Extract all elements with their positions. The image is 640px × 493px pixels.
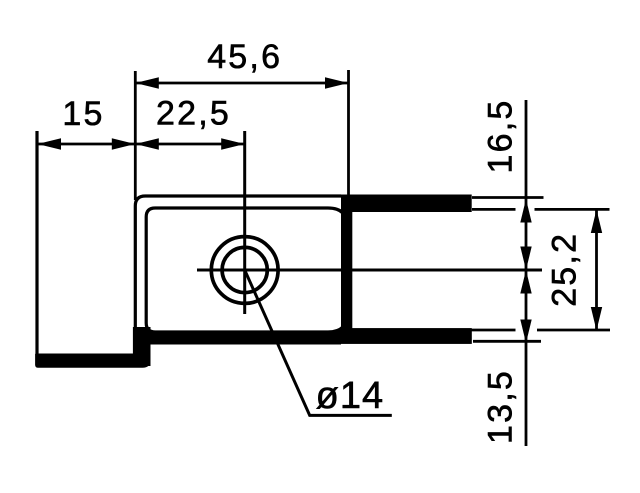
- svg-text:45,6: 45,6: [207, 38, 282, 76]
- horizontal centerline through hole: [197, 269, 542, 272]
- svg-text:16,5: 16,5: [482, 99, 520, 174]
- body inner cavity contour (rounded): [146, 208, 348, 332]
- svg-text:ø14: ø14: [316, 375, 384, 417]
- svg-text:15: 15: [62, 95, 104, 133]
- profile left column (thick fill joining band to bottom bar): [133, 327, 151, 366]
- vertical centerline through hole: [243, 131, 246, 314]
- svg-text:25,2: 25,2: [546, 232, 584, 307]
- arrow right of 22,5: [221, 138, 245, 149]
- arrow left of 22,5: [135, 138, 159, 149]
- arrow left of 15: [38, 138, 62, 149]
- svg-text:13,5: 13,5: [482, 369, 520, 444]
- profile bottom band left segment (thick section fill): [147, 331, 341, 345]
- profile top bar (thick section fill, right of wall): [341, 195, 472, 213]
- hole outer circle (ø14): [211, 237, 278, 304]
- arrow left of 45,6: [135, 77, 159, 88]
- arrow up of 16,5: [520, 199, 531, 223]
- profile right wall (thick vertical section fill): [341, 195, 352, 344]
- dimension line 13,5 (vertical): [525, 270, 528, 446]
- dimension line 15: [38, 143, 136, 146]
- leader line to ø14 label: [245, 270, 392, 415]
- glass bottom thick bar: [35, 354, 150, 368]
- profile bottom band right segment (thick section fill): [341, 328, 472, 344]
- extension line bottom inner surface (right): [472, 329, 516, 332]
- glass panel left edge (thin line): [35, 131, 38, 355]
- extension line top outer surface (right): [472, 196, 544, 199]
- dimension line 16,5 (vertical): [525, 100, 528, 270]
- hole inner circle: [222, 247, 267, 292]
- svg-text:22,5: 22,5: [156, 95, 231, 133]
- arrow right of 15: [112, 138, 136, 149]
- arrow right of 45,6: [325, 77, 349, 88]
- extension line top inner surface (right): [472, 208, 516, 211]
- extension line x=348.5 (right end of 45,6): [347, 70, 350, 196]
- arrow down of 13,5: [520, 320, 531, 344]
- dimension line 22,5: [135, 143, 244, 146]
- arrow down of 25,2: [591, 307, 602, 331]
- dimension line 45,6: [135, 82, 348, 85]
- extension line bottom outer surface (right): [473, 340, 541, 343]
- body outer contour (left edge + rounded top-left corner + top edge): [135, 196, 341, 354]
- re-fill wall over cavity stroke: [341, 208, 352, 333]
- arrow up of 13,5 at centerline: [520, 270, 531, 294]
- extension line x=135.3 (for dims 45,6 / 22,5 / 15): [134, 71, 137, 200]
- arrow down of 16,5 at centerline: [520, 247, 531, 271]
- dimension line 25,2 (vertical): [595, 210, 598, 331]
- arrow up of 25,2: [591, 210, 602, 234]
